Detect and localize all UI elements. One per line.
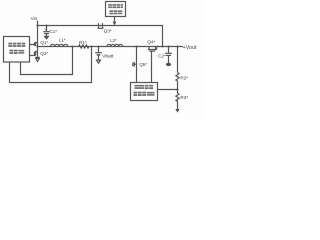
svg-text:C2*: C2*	[158, 53, 166, 58]
svg-text:Q4*: Q4*	[147, 40, 155, 45]
svg-text:+: +	[45, 27, 48, 32]
svg-text:Q1*: Q1*	[40, 40, 48, 45]
svg-text:L2*: L2*	[110, 38, 117, 43]
svg-text:Q3*: Q3*	[104, 28, 112, 33]
svg-text:Vbatt: Vbatt	[102, 54, 114, 60]
svg-text:R3*: R3*	[180, 95, 188, 100]
svg-text:L1*: L1*	[59, 37, 66, 42]
svg-text:Vin: Vin	[31, 16, 38, 21]
svg-text:+Vout: +Vout	[183, 45, 197, 51]
svg-text:R1*: R1*	[79, 40, 87, 45]
svg-text:R2*: R2*	[180, 76, 188, 81]
svg-text:Q5*: Q5*	[139, 62, 147, 67]
svg-text:Q2*: Q2*	[40, 51, 48, 56]
svg-text:C1*: C1*	[49, 29, 57, 34]
